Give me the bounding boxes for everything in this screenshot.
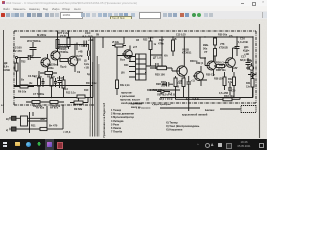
svg-text:+0В: +0В [178, 80, 183, 83]
svg-text:ТВ2: ТВ2 [21, 61, 26, 64]
svg-text:R30 С/х: R30 С/х [206, 74, 215, 77]
svg-text:R10: R10 [84, 89, 89, 92]
svg-text:5 Реле: 5 Реле [111, 123, 120, 126]
resistor R1 [56, 31, 59, 52]
svg-text:R10 1,2к: R10 1,2к [86, 81, 97, 85]
svg-text:к 12 зажимам: к 12 зажимам [136, 108, 151, 110]
junction dot n [32, 57, 33, 58]
wire C21 to VT10 base [162, 58, 176, 71]
menu bar [0, 6, 267, 11]
svg-text:Rт к7а: Rт к7а [50, 106, 59, 110]
svg-text:0д: 0д [87, 73, 90, 76]
svg-text:R38 (20х: R38 (20х [214, 78, 225, 81]
svg-text:/Л 33к: /Л 33к [112, 41, 120, 44]
svg-text:(В: (В [174, 38, 177, 41]
window title bar [0, 0, 267, 6]
svg-text:М 220х: М 220х [37, 33, 47, 37]
svg-text:R30 50а: R30 50а [218, 34, 228, 37]
svg-text:R6 10к: R6 10к [18, 90, 27, 94]
wire plug1 to node [28, 117, 48, 119]
svg-text:Д9: Д9 [4, 61, 8, 65]
svg-text:к двум приборам: к двум приборам [152, 103, 171, 106]
left page top rail wire [20, 36, 93, 38]
svg-text:КТ361Б: КТ361Б [219, 47, 228, 50]
schematic frame right page (dash-dot border) [119, 31, 256, 103]
resistor R14 horizontal [46, 101, 64, 104]
rail drop x162 [161, 37, 163, 59]
resistor R30 vertical [214, 37, 217, 49]
svg-text:R24: R24 [124, 64, 129, 67]
potentiometer R9 [70, 97, 88, 104]
resistor R2x vertical [116, 80, 119, 95]
junction dot h [233, 97, 234, 98]
svg-text:(5б: (5б [121, 72, 125, 75]
svg-text:Эл2: Эл2 [40, 117, 45, 121]
resistor R3 vertical [15, 58, 18, 86]
svg-text:Гн2: Гн2 [248, 60, 253, 63]
capacitor C17 vertical [246, 58, 251, 70]
svg-text:R2 470: R2 470 [13, 49, 22, 53]
svg-text:(1,0+15В: (1,0+15В [237, 40, 248, 44]
small box above potentiometer [77, 95, 85, 98]
wire R30 to VT11 base [184, 37, 215, 66]
connector plug X1 [10, 116, 21, 120]
right page top rail wire [93, 36, 253, 38]
vertical wire x27 [29, 112, 31, 133]
svg-text:Х) Узел (Воспроизводишь: Х) Узел (Воспроизводишь [166, 124, 200, 128]
svg-text:+1): +1) [191, 80, 195, 83]
svg-text:АВГ: АВГ [233, 67, 238, 70]
resistor R8 [50, 75, 53, 98]
diode D11 [248, 72, 256, 77]
svg-text:к1Т: к1Т [133, 46, 138, 49]
junction dot rail R4 [68, 30, 69, 31]
output jack right [246, 63, 254, 70]
wire drop x124 [123, 37, 125, 44]
dashed callout box [241, 106, 256, 113]
junction dot j [38, 97, 39, 98]
wire drops to lower rail [176, 66, 254, 111]
svg-text:6 Лампа: 6 Лампа [111, 127, 122, 130]
svg-text:50х: 50х [203, 47, 208, 51]
resistor R34 vertical [233, 72, 236, 97]
svg-text:0,5+15В: 0,5+15В [219, 92, 228, 95]
resistor R31b vertical [182, 78, 185, 98]
resistor R25 horizontal [150, 66, 172, 69]
capacitor C6 beside R8 [54, 78, 57, 87]
capacitor C10 [80, 41, 89, 48]
svg-text:Х) Тюнер: Х) Тюнер [166, 121, 178, 125]
wire input to base [33, 57, 41, 59]
resistor R22 vertical [149, 37, 152, 55]
svg-text:С15 0,25: С15 0,25 [176, 34, 186, 37]
svg-text:С1О: С1О [85, 31, 90, 35]
junction dot l [19, 85, 20, 86]
svg-text:+1В: +1В [244, 52, 249, 56]
svg-text:220к: 220к [48, 66, 54, 70]
capacitor C18 vertical [187, 76, 192, 98]
junction dot d [236, 36, 237, 37]
right page lower rail [160, 97, 253, 99]
svg-text:ЛТ: ЛТ [146, 99, 150, 102]
resistor R6 horizontal [14, 85, 34, 88]
svg-text:1В: 1В [136, 39, 139, 42]
canvas / scanned schematic [0, 19, 267, 139]
resistor R9 horizontal [26, 101, 46, 104]
svg-text:R29 (1: R29 (1 [196, 62, 204, 65]
svg-text:Пд к): Пд к) [60, 65, 67, 69]
svg-text:R9 68к: R9 68к [74, 107, 83, 111]
capacitor C20 left column [228, 83, 232, 95]
svg-text:Вч 470: Вч 470 [49, 124, 58, 128]
capacitor C1 [25, 55, 33, 60]
page gutter crease line 2 [92, 62, 94, 137]
capacitor C16 [235, 44, 240, 52]
resistor R33 horizontal [216, 98, 240, 101]
resistor R31 vertical [174, 76, 177, 98]
junction dot rail R1 [57, 36, 58, 37]
wire VT12 collector chain [233, 48, 238, 56]
transistor VT3 [68, 45, 78, 73]
wire x77 vertical [76, 43, 78, 51]
scan page left edge [3, 30, 5, 113]
resistor R32 vertical [223, 72, 226, 90]
paper grain overlay [0, 19, 267, 139]
resistor R26 vertical [214, 49, 217, 64]
svg-text:10,0): 10,0) [60, 45, 66, 49]
svg-text:1М1В: 1М1В [3, 68, 10, 72]
connector table box [136, 54, 147, 80]
svg-text:степ: степ [148, 37, 154, 40]
svg-text:+1В: +1В [84, 66, 89, 70]
svg-text:+4В: +4В [78, 51, 83, 54]
svg-text:Баланс: Баланс [205, 108, 215, 112]
wire drop x103 [102, 37, 104, 48]
wire top rail second [58, 44, 89, 46]
junction dot e [252, 36, 253, 37]
svg-text:7 Платба: 7 Платба [111, 131, 123, 134]
svg-text:к): к) [6, 128, 8, 132]
transistor VT1 [41, 54, 50, 71]
junction dot k [51, 97, 52, 98]
left page edge wire pair [91, 37, 94, 98]
svg-text:С19: С19 [231, 90, 236, 93]
wire pot to bottom [87, 98, 89, 103]
vertical wire x63 bottom [62, 105, 64, 129]
svg-text:(1/: (1/ [84, 59, 87, 63]
relay box M2 [21, 112, 48, 126]
transistor VT12 [225, 48, 236, 72]
svg-text:W КТ361Б: W КТ361Б [27, 39, 41, 43]
svg-text:0 к17: 0 к17 [57, 76, 64, 80]
taskbar [0, 139, 267, 150]
capacitor C2 [30, 42, 37, 56]
transistor VT10 [176, 58, 187, 86]
resistor R0 horizontal [60, 59, 68, 62]
junction dot b [184, 36, 185, 37]
svg-text:/6,0+15В: /6,0+15В [82, 34, 93, 38]
junction dot i [57, 64, 58, 65]
resistor R13h horizontal [112, 44, 126, 47]
resistor R5 horizontal [40, 72, 57, 75]
svg-text:× 37,3: × 37,3 [63, 130, 71, 134]
svg-text:VT: VT [204, 50, 208, 54]
capacitor C14 horizontal [162, 82, 173, 87]
svg-text:Приложение к ж·Радио №5: Приложение к ж·Радио №5 [102, 102, 106, 137]
svg-text:/0,5: /0,5 [168, 93, 173, 96]
svg-text:R2х 2,2к: R2х 2,2к [120, 84, 130, 87]
wire table to cap [145, 66, 150, 73]
junction dot f [204, 57, 205, 58]
svg-text:R35 /R38 100а: R35 /R38 100а [147, 89, 164, 92]
rail drop x253 [252, 37, 254, 67]
transistor VT11 [206, 56, 216, 76]
resistor R4 [67, 31, 70, 49]
capacitor C21 horizontal [150, 63, 163, 69]
wire mid table rails [151, 55, 163, 66]
wire collector VT2 to rail [58, 37, 69, 47]
page gutter crease line 3 (page edge) [94, 37, 96, 137]
schematic frame left page (dash-dot border) [14, 31, 95, 105]
svg-text:R25 100: R25 100 [155, 73, 165, 77]
svg-text:1 Тюнер: 1 Тюнер [111, 109, 122, 112]
svg-text:Rт к2а: Rт к2а [36, 106, 45, 110]
resistor R11 horizontal [40, 127, 63, 130]
junction dot m [74, 44, 75, 45]
capacitor C4 beside R7 [42, 78, 45, 87]
svg-text:/0А: /0А [164, 55, 168, 58]
svg-text:ЛВ 48,0 и +1 В: ЛВ 48,0 и +1 В [157, 93, 175, 97]
page gutter crease line 5 [98, 64, 100, 137]
input jack X-in [15, 56, 27, 58]
svg-text:+19В: +19В [88, 39, 94, 42]
svg-text:а /: а / [1, 103, 4, 107]
connector table arrows [129, 57, 136, 78]
junction dot c [204, 36, 205, 37]
wire to callout box [220, 108, 241, 110]
svg-text:КЦ8×: КЦ8× [243, 49, 250, 53]
transistor VT2 [51, 47, 61, 65]
junction dot g [175, 97, 176, 98]
svg-text:Д11: Д11 [244, 45, 249, 49]
diode VD3 [157, 90, 170, 94]
page gutter crease line 1 [89, 58, 91, 137]
svg-text:С2 100: С2 100 [13, 46, 22, 50]
frame bridge over gutter [95, 30, 119, 32]
svg-text:R11: R11 [31, 124, 36, 128]
svg-text:2 Мотор движения: 2 Мотор движения [111, 113, 134, 116]
toolbar [0, 11, 267, 20]
page gutter crease line 4 [96, 56, 98, 137]
transistor VT13 [193, 66, 207, 86]
svg-text:С3 /0а: С3 /0а [28, 75, 36, 78]
svg-text:/5,6+: /5,6+ [3, 65, 9, 69]
rail drop x193 [199, 37, 201, 58]
left page mid rail [14, 85, 93, 87]
resistor R27 [172, 37, 175, 56]
svg-text:0,2е: 0,2е [84, 62, 90, 66]
ground rail left page [14, 97, 93, 99]
resistor R41 vertical [251, 74, 254, 98]
svg-text:3 Мультивибратор: 3 Мультивибратор [111, 116, 134, 119]
svg-text:4 Лебедка: 4 Лебедка [111, 120, 124, 123]
transistor VT9 [122, 46, 132, 63]
svg-text:R12 5,1к: R12 5,1к [66, 92, 76, 95]
vertical wire x47 [46, 106, 48, 129]
input shield wire [20, 58, 25, 86]
capacitor C7r [88, 45, 90, 61]
svg-text:Х) Наушники: Х) Наушники [166, 128, 183, 132]
scan page right edge [259, 24, 261, 138]
right page mid rail [150, 89, 180, 91]
wire x117 vertical [117, 47, 132, 80]
svg-text:ДТ 1,0: ДТ 1,0 [153, 56, 161, 60]
junction dot a [161, 36, 162, 37]
svg-text:КТ361Б: КТ361Б [59, 50, 69, 54]
svg-text:Вых: Вых [120, 59, 126, 62]
capacitor C5 vertical [58, 76, 62, 88]
resistor R13 vertical [62, 76, 65, 97]
resistor R30b horizontal [214, 65, 226, 68]
wire balance bottom [160, 107, 200, 109]
wire plug2 to resistor [30, 128, 41, 130]
connector plug X2 [10, 127, 30, 131]
svg-text:470к: 470к [158, 42, 164, 46]
left rail drop wire [92, 37, 94, 80]
junction dot R27 rail [172, 36, 173, 37]
resistor R7 [38, 71, 41, 97]
svg-text:27): 27) [229, 35, 233, 38]
svg-text:В): В) [6, 117, 9, 121]
rail drop x237 [236, 37, 238, 46]
svg-text:курсионной линией: курсионной линией [182, 113, 208, 117]
svg-text:/5,8+: /5,8+ [218, 68, 224, 71]
wire cap C2 bottom join [28, 55, 33, 57]
svg-text:КТ361Б: КТ361Б [182, 51, 192, 55]
svg-text:КВБ: КВБ [203, 43, 208, 47]
